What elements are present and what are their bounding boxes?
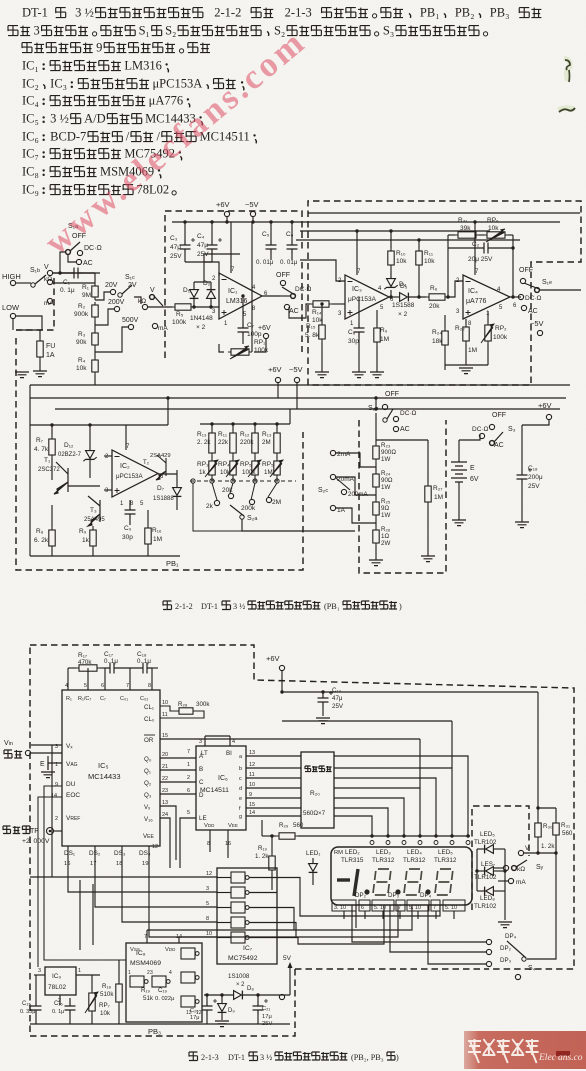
switch S1e <box>520 278 525 283</box>
IC5 MC14433 box <box>62 690 160 846</box>
digit minus one <box>337 878 350 881</box>
switch S1b <box>31 275 46 287</box>
test point TP <box>3 826 30 834</box>
resistor R6 20k <box>426 294 448 300</box>
resistor R19b 1.2k <box>269 853 275 873</box>
wire pin7 to rail <box>230 222 232 273</box>
DP select wires <box>352 905 486 942</box>
wire C1 row <box>52 272 69 274</box>
switch S1d <box>280 280 285 285</box>
cap C4 47u <box>207 238 223 254</box>
wire mA stub <box>498 880 508 882</box>
wires IC5 to IC6 Q lines <box>160 757 196 759</box>
gate IC7 buffer 4 <box>231 917 249 928</box>
long feedback wire top2 <box>300 230 490 232</box>
wire pin7 up <box>474 222 476 275</box>
op-amp IC4 uA776 <box>463 275 510 319</box>
IC6 MC14511 box <box>196 746 246 830</box>
gate IC7 buffer 3 <box>231 902 249 913</box>
resistor R15 5.8k <box>319 322 325 342</box>
wire T1 <box>51 470 53 480</box>
wire to R5 <box>148 306 172 308</box>
wire 20V tap <box>95 292 110 300</box>
op-amp IC1 LM316 <box>219 273 262 319</box>
ground <box>15 372 29 378</box>
wires IC6 to network <box>246 755 301 757</box>
contact kOhm <box>47 279 52 284</box>
wire +6V rail fig2 <box>282 691 538 693</box>
wire V13 pin <box>160 806 176 860</box>
cap C16 0.1u <box>65 1001 76 1015</box>
ground C18 <box>515 522 529 528</box>
cap C15 0.33u <box>31 1001 42 1015</box>
banner chinese characters dianzi fashaoyou <box>468 1039 539 1063</box>
wire battery bottom <box>458 512 460 520</box>
paragraph line 3 <box>22 43 93 53</box>
cap C2 20u <box>479 243 493 254</box>
resistor R16 1M <box>145 525 151 547</box>
op-amp IC3 uPC153A <box>345 275 389 319</box>
diode D1 <box>190 290 199 299</box>
IC8 MSM4069 box <box>126 943 202 1022</box>
wiper dashed bus <box>190 480 296 482</box>
segment fan wires <box>334 756 468 836</box>
gate IC8 inverter 5 <box>181 996 199 1007</box>
resistor R23 900ohm <box>373 443 379 462</box>
wire R21 RP6 row <box>448 234 455 236</box>
wire S1e out <box>540 289 581 291</box>
wire left edge long vertical <box>51 745 53 877</box>
wire S2b node <box>375 413 377 436</box>
voltage divider chain wire <box>94 273 96 283</box>
wire S1d to next stage <box>289 307 303 318</box>
wire wiper left <box>193 483 242 531</box>
resistor R31 560 <box>553 820 559 838</box>
wire R28 to CL0 <box>160 711 204 718</box>
wire pin7 up <box>356 231 358 275</box>
shunt chain <box>375 436 377 443</box>
resistor network box <box>301 752 334 828</box>
resistor R2 900k <box>92 302 98 320</box>
ground IC4 stage <box>459 368 473 374</box>
cap C18b 0.1u <box>138 663 152 674</box>
resistor R4 10k <box>92 357 98 375</box>
bundle verticals <box>355 905 357 928</box>
long feedback wire top1 <box>308 212 580 214</box>
caption figure 2-1-3 <box>189 1052 198 1061</box>
resistor R22 1M <box>463 324 469 344</box>
ground C8 <box>352 372 366 378</box>
LED column verticals <box>476 849 478 891</box>
resistor R29 560 <box>276 833 298 839</box>
cap C7 100p <box>238 323 249 337</box>
cap C14 47u <box>318 691 334 707</box>
PB2 dashed board outline <box>30 645 574 969</box>
resistor R7 4.7k <box>49 436 55 458</box>
PB1 dashed board outline left section <box>16 338 303 570</box>
wire V16 pin down <box>160 818 170 868</box>
resistor R26 1ohm <box>373 527 379 546</box>
green pen scribble 1 <box>564 58 570 81</box>
cap C18 200u <box>517 468 533 484</box>
display pin boxes <box>332 900 356 911</box>
wire S2a down <box>242 519 355 531</box>
cap C3 47u <box>180 238 196 254</box>
ground fuse <box>33 371 47 377</box>
IC9 78L02 box <box>45 967 76 995</box>
wire fuse top <box>16 329 42 331</box>
cap C20 47u <box>202 999 218 1015</box>
switch S1c lever <box>150 295 163 306</box>
wire TP to IC5 <box>54 830 62 832</box>
ground R9 <box>370 372 384 378</box>
resistor R9 1M <box>374 325 380 345</box>
caption figure 2-1-2 <box>163 601 172 610</box>
PB3 dashed sub-box LED area <box>472 806 529 910</box>
wire feedback LM316 <box>204 254 240 262</box>
resistor R18 510k <box>116 981 122 1005</box>
ground R27 <box>421 556 435 562</box>
battery E 6V <box>451 462 467 482</box>
diode D2 <box>207 290 216 299</box>
wire IC3 out <box>389 296 399 298</box>
wire R6 to pin2 <box>448 281 463 297</box>
resistor R25 9ohm <box>373 499 379 518</box>
PB1 dashed outline upper small section <box>16 278 54 330</box>
resistor R24 18k <box>442 328 448 348</box>
contact mA mid <box>152 323 157 328</box>
switch S4 <box>507 941 526 961</box>
gate IC7 buffer 1 <box>231 872 249 883</box>
long bus wire 3 <box>55 408 560 410</box>
wire D5 to R6 <box>409 296 426 298</box>
digit eight ghost 2 <box>404 869 422 895</box>
wire R30 R31 bottoms <box>537 840 539 853</box>
wire taps to shunt <box>336 453 376 467</box>
wire pin4 pin8 vertical <box>251 222 253 352</box>
wire IC2 pin7 <box>125 425 127 450</box>
fuse FU 1A <box>37 338 43 360</box>
wire R31 top <box>555 808 557 820</box>
cap C6 0.01u <box>287 240 298 254</box>
gate IC7 buffer 2 <box>231 887 249 898</box>
wire diodes top <box>194 281 211 283</box>
resistor R30 1.2k <box>535 820 541 840</box>
bottom rail IC2 stage <box>30 555 180 557</box>
terminal LOW <box>10 313 15 318</box>
wire divider joints <box>94 320 96 330</box>
wire 200V tap <box>95 309 114 325</box>
wire LOW bus <box>16 316 42 330</box>
resistor R21 39k <box>455 232 479 238</box>
ground rail bottom left <box>30 1023 290 1025</box>
diode D5 <box>400 293 409 302</box>
bus verticals <box>29 385 31 398</box>
wire T1 to T3 <box>68 485 100 487</box>
cap C21 47u <box>253 999 269 1015</box>
5V supply arrow <box>289 968 291 995</box>
ground <box>41 772 55 778</box>
contact mA <box>47 298 52 303</box>
wire DS crossing verticals <box>79 880 81 950</box>
resistor R28 300k <box>176 708 196 714</box>
LED display module box <box>331 847 472 905</box>
resistor R5 100k <box>172 304 194 310</box>
pot RP2 100k <box>485 322 491 344</box>
cap C5 0.01u <box>266 240 277 254</box>
wires RC timing row <box>68 667 76 669</box>
cap C1 <box>69 268 83 279</box>
ground battery <box>452 520 466 526</box>
resistor R3 90k <box>92 330 98 348</box>
cap C17 0.1u <box>105 663 119 674</box>
watermark www.elecfans.com <box>37 21 313 262</box>
terminal HIGH <box>10 280 15 285</box>
wire Vin to IC5 <box>31 752 62 754</box>
gate IC7 buffer 5 <box>231 932 249 943</box>
switch S2c lever <box>336 478 350 490</box>
wire DU to IC8 <box>44 786 126 960</box>
wires bundle to IC8 pins <box>147 929 294 931</box>
resistor R8 6.2k <box>49 527 55 549</box>
pot RP1 100k <box>228 349 252 355</box>
contact kOhm mid <box>142 304 147 309</box>
paragraph line 2 <box>8 26 30 36</box>
resistor R17 470k <box>76 665 100 671</box>
gate IC8 inverter 3 <box>181 948 199 959</box>
anode line with junctions <box>298 835 470 837</box>
dashed box A power rails section <box>165 211 302 358</box>
digit eight ghost 1 <box>373 869 391 895</box>
ground <box>316 718 330 724</box>
resistor R14 10k <box>310 301 332 307</box>
switch S7 <box>512 860 527 870</box>
cap C8 30p <box>354 323 365 337</box>
resistor R27 1M <box>425 483 431 505</box>
ground LED column <box>498 922 512 928</box>
right vertical bus <box>537 692 539 820</box>
display bottom pin stubs <box>343 911 345 919</box>
pot RP7 10k <box>89 990 95 1014</box>
resistor R24b 90ohm <box>373 471 379 490</box>
wire OR pin <box>160 738 420 740</box>
wiper levers <box>212 483 217 500</box>
wire mid horizontal fig2 <box>282 720 452 722</box>
wire pin2 input <box>300 260 345 281</box>
dashed box current shunt section <box>359 420 446 573</box>
wire LE <box>180 818 196 868</box>
pot RP6 10k <box>484 232 508 238</box>
current range contacts <box>330 450 335 455</box>
wire fb node to out <box>512 235 514 297</box>
gate IC8 inverter 1 <box>130 976 148 987</box>
wire EOC down <box>38 797 62 967</box>
ground shunt <box>369 560 383 566</box>
wire LM316 out <box>262 295 280 297</box>
wire 2V selector output <box>134 297 141 304</box>
long bus wire 1 <box>30 384 570 386</box>
long horizontals left logic <box>30 876 217 878</box>
wire LOW down <box>12 319 14 330</box>
resistor R1 9M <box>92 283 98 300</box>
long feedback wire top3 <box>296 239 520 241</box>
digit eight ghost 3 <box>435 869 453 895</box>
network top wire <box>200 423 290 425</box>
IC7 MC75492 box <box>217 868 277 964</box>
wires DS to gates <box>68 846 217 892</box>
svg-text:Elec: Elec <box>538 1053 557 1063</box>
ground D9 <box>215 1021 229 1027</box>
contact V mid <box>149 294 154 299</box>
cap C9 30p <box>125 505 136 519</box>
wire R14 to pin3 <box>332 303 345 305</box>
range switch right <box>518 850 523 855</box>
wire top row IC2 <box>30 424 168 426</box>
contact V <box>47 270 52 275</box>
selector contacts 2k 20k 200k 2M <box>214 500 219 505</box>
transistor T2 2SA429 symbol <box>156 455 166 480</box>
wire caps gnd <box>185 261 212 263</box>
diode D4 zener <box>387 279 396 288</box>
wire S1a node <box>52 272 100 274</box>
wire S3 to +6V <box>522 420 549 425</box>
wire input to pin3 <box>194 306 219 308</box>
dashed box B main analog board <box>308 201 581 385</box>
wire CL1 to R28 <box>160 706 176 711</box>
wire bundle display to gates <box>277 878 440 917</box>
wire IC2 inputs <box>104 455 112 457</box>
power rail wire <box>172 221 560 223</box>
wire 500V tap <box>95 327 128 352</box>
resistor R11 10k <box>416 248 422 268</box>
gate IC8 inverter 4 <box>181 972 199 983</box>
gate IC8 inverter 2 <box>152 976 170 987</box>
wire IC2 out <box>158 473 177 475</box>
resistor R10 10k <box>388 248 394 268</box>
paper scan noise overlay <box>0 0 1 1</box>
wire kOhm to R14 <box>303 304 310 318</box>
svg-text:ans.co: ans.co <box>558 1053 583 1063</box>
wire HIGH to switch S1b <box>16 282 31 284</box>
wire S1d to out <box>280 295 291 297</box>
switch S2a <box>230 505 244 519</box>
green pen scribble 2 <box>558 108 574 110</box>
long bus wire 2 <box>30 397 566 399</box>
op-amp IC2 uPC153A <box>112 450 158 497</box>
ground R15 <box>315 372 329 378</box>
wire S2b to R27 <box>376 439 428 441</box>
resistor R9b 1k <box>90 527 96 549</box>
wire bottom rail IC4 <box>445 364 488 366</box>
wire S4 to resistor bus <box>527 853 556 959</box>
wire out node <box>510 296 521 298</box>
